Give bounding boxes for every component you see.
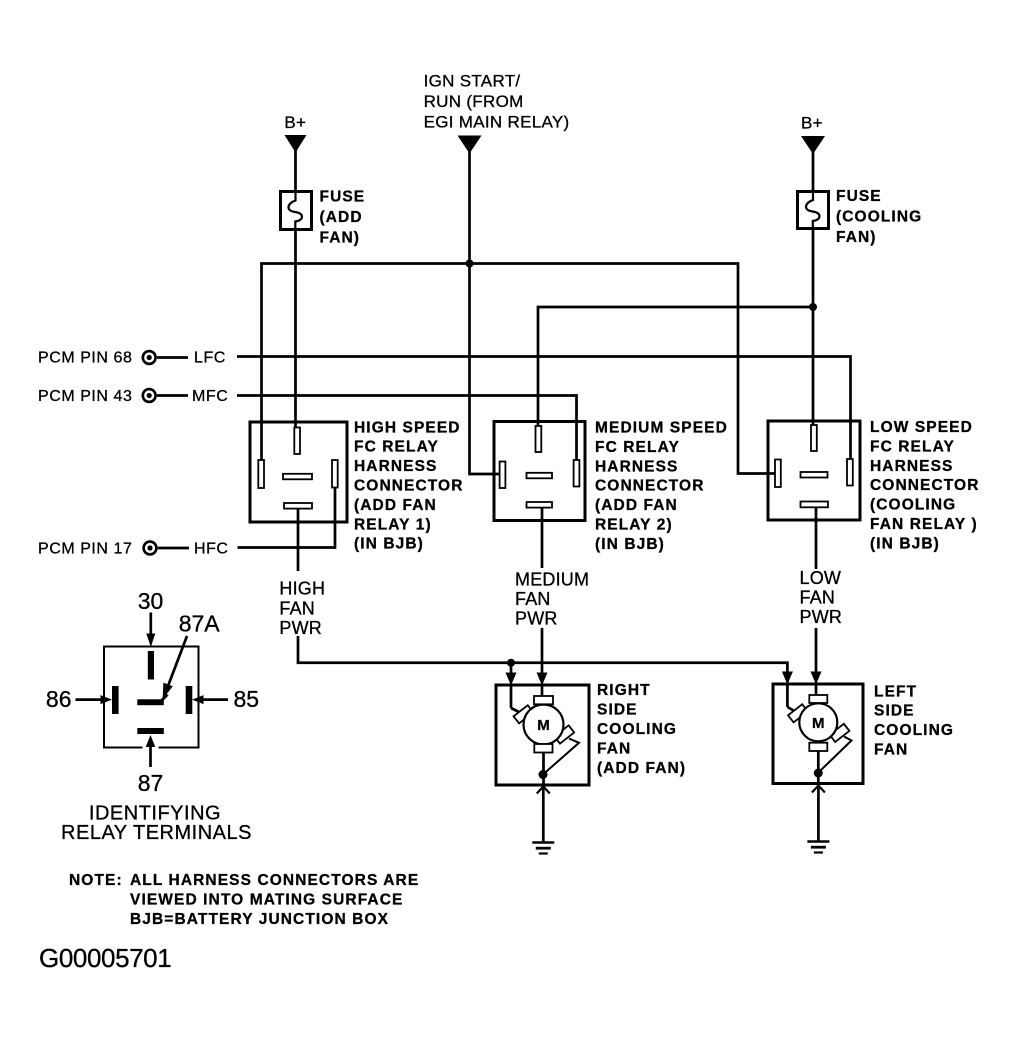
wire CN2 pin 87 medium fan pwr stub — [541, 508, 544, 568]
svg-text:VIEWED INTO MATING SURFACE: VIEWED INTO MATING SURFACE — [130, 892, 403, 909]
svg-text:(ADD FAN): (ADD FAN) — [597, 760, 686, 777]
svg-text:B+: B+ — [801, 114, 823, 133]
arrow 87 — [143, 735, 159, 767]
arrow 85 — [192, 695, 228, 704]
svg-text:RELAY 1): RELAY 1) — [354, 516, 432, 533]
caption identifying relay terminals — [61, 803, 252, 845]
svg-text:LFC: LFC — [194, 349, 226, 366]
arrow into left fan top — [811, 672, 822, 685]
svg-text:HARNESS: HARNESS — [595, 458, 679, 475]
arrow chevron up right fan — [537, 787, 550, 794]
arrow 86 — [76, 695, 113, 704]
note block — [69, 872, 419, 928]
label relay CN3 — [870, 419, 980, 552]
svg-text:PCM PIN 17: PCM PIN 17 — [38, 541, 132, 558]
label relay CN1 — [354, 419, 464, 552]
svg-text:B+: B+ — [284, 113, 306, 132]
label fuse F2 — [836, 188, 922, 246]
svg-text:M: M — [537, 717, 550, 734]
terminal 30 blade — [148, 651, 154, 680]
svg-text:HFC: HFC — [194, 541, 229, 558]
svg-text:LEFT: LEFT — [874, 683, 917, 700]
node IGN START/RUN label — [424, 72, 570, 132]
wire high fan pwr bus — [298, 636, 787, 682]
svg-text:FAN): FAN) — [320, 230, 361, 247]
label relay CN2 — [595, 420, 728, 553]
svg-text:FC RELAY: FC RELAY — [354, 439, 439, 456]
node LOW FAN PWR — [800, 568, 843, 627]
svg-text:RELAY 2): RELAY 2) — [595, 517, 673, 534]
svg-text:EGI MAIN RELAY): EGI MAIN RELAY) — [424, 113, 570, 132]
svg-text:CONNECTOR: CONNECTOR — [595, 478, 705, 495]
arrow chevron up left fan — [812, 786, 825, 793]
svg-text:MEDIUM SPEED: MEDIUM SPEED — [595, 420, 728, 437]
node PCM PIN 43 — [38, 388, 228, 405]
node PCM PIN 68 — [38, 349, 226, 366]
svg-text:CONNECTOR: CONNECTOR — [870, 477, 980, 494]
svg-text:FAN: FAN — [597, 740, 631, 757]
svg-text:PWR: PWR — [515, 609, 558, 629]
svg-text:FAN: FAN — [874, 742, 908, 759]
node HIGH FAN PWR — [279, 579, 325, 638]
junction bus2 x fuse F2 wire — [809, 303, 817, 311]
svg-text:MEDIUM: MEDIUM — [515, 569, 589, 589]
svg-text:FUSE: FUSE — [320, 189, 366, 206]
motor M1 right fan — [511, 685, 579, 785]
svg-text:FAN: FAN — [279, 598, 315, 618]
relay connector CN2 medium speed — [494, 422, 585, 521]
svg-text:RELAY TERMINALS: RELAY TERMINALS — [61, 822, 252, 844]
wire LFC to relay CN3 pin 86 — [237, 357, 851, 463]
power arrow B+ left — [285, 135, 307, 153]
svg-text:BJB=BATTERY JUNCTION BOX: BJB=BATTERY JUNCTION BOX — [130, 911, 389, 928]
svg-text:RIGHT: RIGHT — [597, 682, 651, 699]
svg-text:LOW SPEED: LOW SPEED — [870, 419, 973, 436]
wire MFC to relay CN2 pin 86 — [237, 396, 577, 464]
wire tap to right fan — [510, 663, 513, 676]
svg-text:FC RELAY: FC RELAY — [870, 438, 955, 455]
ground right — [532, 843, 554, 854]
wire medium fan pwr to right fan — [541, 628, 544, 676]
svg-text:(ADD FAN: (ADD FAN — [354, 497, 437, 514]
svg-text:RUN (FROM: RUN (FROM — [424, 92, 524, 111]
fuse F1 (ADD FAN) — [281, 192, 312, 230]
svg-text:SIDE: SIDE — [597, 702, 638, 719]
arrow into left fan west — [782, 672, 793, 685]
ground left — [807, 842, 829, 853]
svg-text:ALL HARNESS CONNECTORS ARE: ALL HARNESS CONNECTORS ARE — [130, 872, 419, 889]
svg-text:HARNESS: HARNESS — [354, 458, 438, 475]
svg-text:(IN BJB): (IN BJB) — [595, 536, 665, 553]
wire fuse F1 to relay CN1 pin 30 — [294, 230, 297, 431]
arrow 87A — [163, 636, 187, 699]
wire B+ right to fuse F2 — [812, 151, 815, 191]
svg-text:87A: 87A — [179, 611, 221, 637]
wire right fan to ground — [542, 787, 545, 843]
label right fan — [597, 682, 686, 777]
terminal 85 blade — [186, 686, 193, 714]
fuse F2 (COOLING FAN) — [798, 192, 829, 229]
svg-text:G00005701: G00005701 — [39, 943, 171, 973]
svg-text:NOTE:: NOTE: — [69, 872, 123, 889]
node MEDIUM FAN PWR — [515, 569, 589, 628]
svg-text:FC RELAY: FC RELAY — [595, 439, 680, 456]
wire fuse F2 to relay CN3 pin 30 — [812, 228, 815, 428]
svg-text:PCM PIN 43: PCM PIN 43 — [38, 388, 132, 405]
svg-text:(COOLING: (COOLING — [870, 497, 956, 514]
svg-text:30: 30 — [138, 588, 164, 614]
svg-text:HARNESS: HARNESS — [870, 458, 954, 475]
svg-text:MFC: MFC — [192, 388, 228, 405]
relay connector CN3 low speed — [768, 421, 860, 520]
label left fan — [874, 683, 954, 758]
motor M2 left fan — [787, 684, 851, 784]
arrow into right fan west — [506, 673, 517, 686]
svg-text:HIGH: HIGH — [279, 579, 325, 599]
svg-text:PCM PIN 68: PCM PIN 68 — [38, 349, 132, 366]
svg-text:86: 86 — [46, 686, 72, 712]
wire B+ left to fuse F1 — [294, 150, 297, 191]
power arrow B+ right — [801, 136, 825, 154]
svg-text:FAN RELAY ): FAN RELAY ) — [870, 516, 978, 533]
left fan box — [773, 684, 863, 784]
terminal 86 blade — [112, 686, 119, 714]
wire CN1 pin 87 high fan pwr stub — [297, 509, 300, 571]
wire bus1 B+ add fan — [262, 264, 779, 474]
svg-text:LOW: LOW — [800, 568, 842, 588]
wire HFC to relay CN1 pin 86 — [238, 485, 336, 548]
svg-text:SIDE: SIDE — [874, 703, 915, 720]
wire bus2 cooling fan — [538, 307, 813, 428]
svg-text:FUSE: FUSE — [836, 188, 882, 205]
label fuse F1 — [320, 189, 366, 247]
svg-text:87: 87 — [138, 770, 164, 796]
relay terminal box — [104, 647, 199, 748]
wire left fan to ground — [817, 786, 820, 842]
right fan box — [496, 685, 589, 785]
junction high fan bus tap — [507, 659, 515, 667]
svg-text:HIGH SPEED: HIGH SPEED — [354, 419, 461, 436]
svg-text:FAN): FAN) — [836, 229, 877, 246]
arrow into right fan top — [537, 673, 548, 686]
svg-text:(ADD: (ADD — [320, 209, 363, 226]
svg-text:(COOLING: (COOLING — [836, 209, 922, 226]
wire low fan pwr to left fan — [815, 628, 818, 675]
svg-text:(IN BJB): (IN BJB) — [870, 535, 940, 552]
terminal 87 bar — [137, 728, 164, 734]
svg-text:PWR: PWR — [279, 618, 322, 638]
svg-text:IGN START/: IGN START/ — [424, 72, 521, 91]
terminal 87A bar — [137, 695, 167, 706]
svg-text:FAN: FAN — [515, 589, 551, 609]
svg-text:COOLING: COOLING — [597, 721, 677, 738]
power arrow IGN — [458, 136, 482, 154]
arrow 30 — [146, 613, 155, 648]
junction IGN x bus1 — [466, 260, 474, 268]
svg-text:M: M — [812, 715, 825, 732]
svg-text:85: 85 — [234, 686, 260, 712]
wire IGN vertical — [470, 151, 503, 474]
svg-text:(ADD FAN: (ADD FAN — [595, 497, 678, 514]
svg-text:PWR: PWR — [800, 607, 843, 627]
svg-text:(IN BJB): (IN BJB) — [354, 536, 424, 553]
svg-text:FAN: FAN — [800, 588, 836, 608]
svg-text:COOLING: COOLING — [874, 722, 954, 739]
svg-text:CONNECTOR: CONNECTOR — [354, 478, 464, 495]
relay connector CN1 high speed — [250, 422, 347, 522]
wire CN3 pin 87 low fan pwr stub — [815, 507, 818, 569]
node PCM PIN 17 — [38, 541, 229, 558]
